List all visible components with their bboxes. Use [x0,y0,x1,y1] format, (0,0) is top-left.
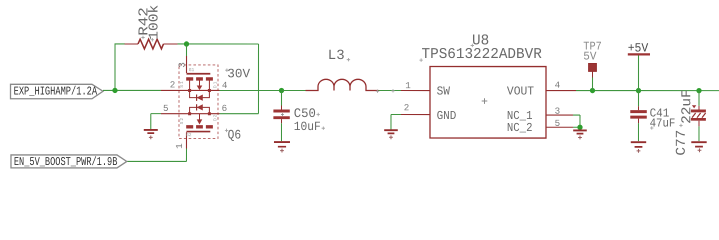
svg-text:C50: C50 [294,106,316,121]
wire Q6 pin 4 to L3 [219,89,281,91]
wire 30V net vertical [257,44,259,114]
svg-text:3: 3 [555,106,561,117]
junction at +5V / C41 [636,88,641,93]
wire junction to L3 [281,89,305,91]
svg-text:4: 4 [222,80,228,91]
svg-text:5: 5 [163,103,169,114]
pin 1 [401,90,430,92]
svg-text:2: 2 [170,79,176,90]
ground (C50) [274,123,290,152]
svg-text:3: 3 [177,62,188,68]
test point TP7 [583,40,602,91]
top FET body diode [190,90,210,97]
svg-text:VOUT: VOUT [507,84,534,98]
capacitor C41 47uF [630,91,675,131]
center cross [482,98,488,104]
svg-text:5V: 5V [583,50,597,64]
capacitor C77 22uF (polarized) [675,89,706,155]
flag EXP_HIGHAMP/1.2A [10,84,103,98]
svg-text:D1: D1 [212,81,218,89]
label Q6 [225,127,241,142]
pin 4 [546,90,576,92]
svg-text:L3: L3 [328,48,345,64]
svg-text:47uF: 47uF [650,116,676,130]
svg-text:SW: SW [437,84,451,98]
wire R42 to 30V net corner [178,43,259,45]
svg-text:+5V: +5V [628,42,649,56]
svg-text:1: 1 [174,143,185,149]
svg-text:TPS613222ADBVR: TPS613222ADBVR [422,46,542,63]
bottom FET body diode [190,107,210,113]
svg-text:10uF: 10uF [294,120,321,134]
wire corner to R42 left lead [115,43,125,45]
svg-text:4: 4 [555,80,561,91]
wire VOUT net [576,90,719,92]
svg-text:1: 1 [405,80,411,91]
wire 30V net to Q6 pin 6 [219,113,258,115]
junction at TP7 [590,88,595,93]
svg-text:S2: S2 [179,117,185,125]
ground (NC net) [573,130,587,139]
pin 3 [546,114,573,116]
wire Q6 pin 3 from junction [186,44,188,56]
flag EN_5V_BOOST_PWR/1.9B [11,155,127,169]
top FET arrow [199,80,201,86]
net label anchors on wire [376,89,395,93]
bottom FET channel stripes [186,125,193,128]
svg-text:100k: 100k [148,5,163,40]
svg-text:22uF: 22uF [680,89,695,124]
pin 3 lead and gate (top FET) [186,56,188,73]
wire net EXP_HIGHAMP flag to Q6 pin 2 [103,89,161,91]
svg-text:EN_5V_BOOST_PWR/1.9B: EN_5V_BOOST_PWR/1.9B [14,155,118,169]
svg-text:2: 2 [404,102,410,113]
op-amp U8 TPS613222ADBVR (boost converter IC) [401,32,576,138]
pin 5 [546,126,573,128]
label 30V [225,66,250,81]
top FET channel stripes [186,77,193,80]
svg-text:EXP_HIGHAMP/1.2A: EXP_HIGHAMP/1.2A [14,85,98,99]
power +5V [628,42,650,91]
wire L3 to U8 pin 1 [378,90,401,92]
svg-text:5: 5 [555,118,561,129]
junction at C77 [696,88,701,93]
dashed package box [179,65,218,139]
svg-text:6: 6 [222,103,228,114]
pin 2 [401,114,430,116]
svg-text:30V: 30V [227,66,250,81]
junction on main net [112,88,117,93]
resistor R42 100k [125,5,178,49]
wire NC_1 / NC_2 to ground [573,115,580,130]
ground (U8 pin 2) [384,130,398,139]
top FET drain/source drops [189,80,191,90]
ground (Q6 pin 5) [144,114,161,140]
inductor L3 [305,48,378,91]
bottom FET arrow [198,114,200,120]
wire U8 pin 2 to ground [391,115,401,130]
wire vertical up to R42 [114,44,116,91]
svg-text:NC_2: NC_2 [507,121,533,135]
svg-text:GND: GND [437,109,457,123]
ground (C41) [631,123,646,153]
junction at R42 / Q6 gate [184,41,189,46]
wire EN_5V net [127,148,187,161]
svg-text:Q6: Q6 [228,127,242,142]
junction at C50 [279,88,284,93]
ground (C77) [691,126,706,152]
capacitor C50 10uF [273,90,325,133]
transistor Q6 (dual MOSFET) [161,56,228,149]
svg-text:G2: G2 [186,132,192,138]
svg-text:S1: S1 [179,80,185,88]
pin 5 / pin 6 row [161,113,220,115]
junction NC net [577,125,582,130]
svg-text:G1: G1 [189,67,195,73]
bottom FET gate and pin 1 lead [186,131,210,133]
svg-text:D2: D2 [212,113,218,121]
pin 2 / pin 4 row [161,89,220,91]
svg-text:C77: C77 [675,130,690,156]
